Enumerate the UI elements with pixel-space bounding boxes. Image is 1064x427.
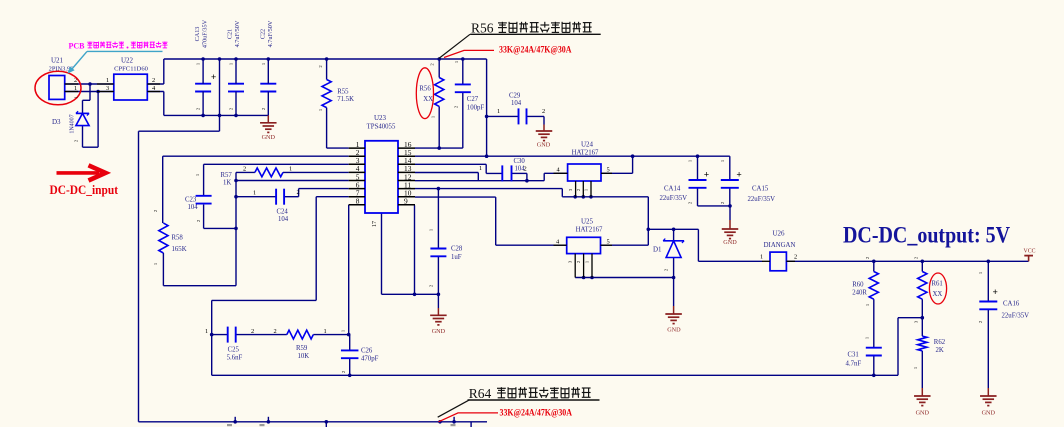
wire C30 right lead [512, 173, 527, 180]
svg-text:VCC: VCC [1024, 249, 1036, 255]
wire U21 pin1 to U22 pin3 [65, 91, 114, 93]
svg-text:CA14: CA14 [664, 186, 681, 193]
diode D1 [653, 239, 684, 272]
wire U24 gate jog [544, 173, 567, 180]
svg-text:5: 5 [607, 239, 610, 246]
svg-text:2: 2 [251, 328, 254, 335]
svg-text:R62: R62 [934, 339, 946, 346]
wire row16 [415, 147, 463, 149]
svg-text:R61: R61 [932, 281, 943, 288]
wire output rail [786, 260, 1028, 262]
red callout line bottom [439, 413, 499, 422]
wire C31 bottom lead [873, 356, 875, 376]
bottom stub e [470, 422, 472, 427]
wire SW to D1 and out [648, 228, 698, 230]
wire C26 top lead [349, 335, 351, 351]
svg-text:1: 1 [760, 254, 763, 261]
svg-text:R56: R56 [419, 86, 431, 93]
svg-text:R57: R57 [221, 172, 233, 179]
svg-text:1: 1 [324, 328, 327, 335]
wire row3 to pin3 [204, 163, 349, 165]
svg-text:470pF: 470pF [361, 356, 379, 363]
svg-text:CA13: CA13 [194, 27, 201, 42]
svg-text:C27: C27 [467, 96, 479, 103]
bottom rail wire [139, 421, 488, 423]
svg-text:DIANGAN: DIANGAN [764, 242, 796, 249]
svg-text:+: + [736, 171, 741, 181]
svg-text:1: 1 [479, 165, 482, 172]
svg-text:22uF/35V: 22uF/35V [748, 196, 776, 203]
capacitor C24 104 [253, 189, 300, 223]
svg-text:470uF/35V: 470uF/35V [202, 19, 209, 48]
svg-text:U24: U24 [581, 141, 594, 149]
svg-text:U21: U21 [51, 57, 64, 65]
svg-text:HAT2167: HAT2167 [572, 150, 599, 157]
wire CA16 top lead [987, 261, 989, 301]
wire D3 cathode loop [83, 92, 99, 148]
wire row10 to U25 gate [415, 197, 567, 245]
left bus wire [138, 131, 140, 422]
svg-text:R55: R55 [337, 89, 349, 96]
wire out jog down [698, 229, 762, 261]
cap return rail [164, 114, 268, 116]
wire CA14 bottom [698, 188, 731, 206]
wire row11 to SW [415, 189, 562, 197]
ground under C22 [260, 115, 277, 141]
svg-text:1N4007: 1N4007 [70, 114, 76, 133]
red arrow DC-DC input [57, 165, 106, 180]
resistor R61 XX [914, 256, 943, 323]
mosfet U24 HAT2167 [554, 141, 613, 197]
svg-text:R58: R58 [172, 235, 184, 242]
resistor R58 165K [153, 209, 187, 265]
capacitor C27 100pF [454, 60, 485, 111]
wire D3 anode jog [83, 84, 91, 113]
svg-text:2: 2 [297, 189, 300, 196]
VIN top rail [164, 58, 487, 60]
svg-text:U22: U22 [121, 57, 134, 65]
svg-text:R56: R56 [471, 21, 494, 36]
junction on pin1 wire [96, 90, 100, 94]
wire feedback tap [898, 318, 922, 376]
svg-text:C31: C31 [848, 352, 859, 359]
junction on pin2 wire [88, 82, 92, 86]
bottom stub c [325, 422, 327, 427]
svg-text:1: 1 [106, 77, 109, 84]
wire CA16 bottom lead [987, 309, 989, 396]
wire CA14 top lead [697, 156, 699, 180]
wire U24 drain to rail [601, 156, 633, 173]
bottom stub d [453, 417, 455, 422]
svg-text:1: 1 [253, 190, 256, 197]
wire C25 to R59 [236, 334, 287, 336]
svg-text:GND: GND [916, 410, 930, 417]
svg-text:2K: 2K [936, 347, 944, 354]
note R56 position [470, 21, 601, 36]
capacitor C21 4.7uF/50V [227, 20, 245, 115]
inductor U26 DIANGAN [760, 230, 797, 271]
wire D1 gnd stem [673, 278, 675, 315]
wire pad gnd row [382, 293, 439, 295]
red ellipse around R61 [929, 273, 946, 304]
svg-text:U25: U25 [581, 218, 594, 226]
red value note bottom [500, 409, 573, 419]
svg-text:2: 2 [243, 166, 246, 173]
wire U25 source bus [575, 277, 673, 279]
op-amp U23 TPS40055 controller [349, 114, 415, 227]
svg-text:CA15: CA15 [752, 186, 769, 193]
wire pin8 drop [348, 205, 350, 335]
cyan callout arrow [67, 51, 162, 73]
wire C28 bottom lead [437, 256, 439, 315]
svg-text:104: 104 [511, 100, 522, 107]
wire C23 top lead [203, 164, 205, 196]
connector U21 2PIN3.96 [49, 57, 78, 100]
black callout line bottom [438, 400, 470, 417]
svg-text:22uF/35V: 22uF/35V [1002, 313, 1030, 320]
svg-text:1K: 1K [223, 180, 231, 187]
svg-text:C28: C28 [451, 246, 463, 253]
resistor R56 XX [419, 63, 443, 119]
svg-text:165K: 165K [172, 246, 187, 253]
wire row5 to pin5 [236, 180, 349, 182]
svg-text:1: 1 [74, 85, 77, 92]
wire CA15 bottom [729, 188, 731, 206]
ground under C29 [536, 131, 553, 149]
svg-text:GND: GND [667, 327, 681, 334]
wire R56 branch [438, 59, 440, 78]
wire row4 R57 right to pin4 [283, 171, 349, 173]
svg-text:+: + [704, 171, 709, 181]
svg-text:XX: XX [423, 96, 433, 103]
wire C28 top lead [437, 189, 439, 249]
module U22 CPFC11D60 [97, 57, 160, 101]
wire C23 bottom to node [204, 205, 236, 229]
svg-text:4.7nF: 4.7nF [846, 361, 862, 368]
svg-text:R60: R60 [852, 282, 864, 289]
ground under CA16 [980, 396, 997, 417]
wire R56 bottom lead [438, 106, 440, 148]
capacitor C30 104 [479, 158, 527, 181]
wire C27 bottom lead [462, 92, 464, 148]
wire D1 top lead [673, 229, 675, 240]
magenta note PCB [69, 42, 168, 51]
red ellipse around U21 [35, 71, 81, 105]
black callout line top [439, 34, 470, 58]
svg-text:C30: C30 [514, 158, 526, 165]
svg-text:9: 9 [404, 197, 408, 206]
svg-text:GND: GND [432, 328, 446, 335]
svg-text:2: 2 [524, 166, 527, 173]
wire row1 R55 to pin1 [327, 147, 349, 149]
resistor R55 71.5K [318, 59, 354, 148]
wire C29 left lead [487, 115, 519, 117]
wire R62 bottom lead [921, 351, 923, 396]
resistor R57 1K [221, 166, 293, 187]
svg-text:PCB: PCB [69, 42, 86, 51]
wire U25 drain [601, 244, 649, 246]
title DC-DC_output 5V [843, 223, 1010, 249]
svg-text:104: 104 [188, 204, 199, 211]
wire VCC stem [1028, 256, 1030, 262]
red callout line top [444, 50, 494, 57]
svg-text:TPS40055: TPS40055 [367, 124, 396, 131]
svg-text:17: 17 [371, 221, 378, 227]
ground under D1 [665, 314, 682, 334]
svg-text:D3: D3 [52, 118, 61, 126]
capacitor C28 1uF [429, 228, 463, 287]
wire R59 to pin8 node [313, 334, 348, 336]
resistor R59 10K [274, 328, 327, 360]
svg-text:U23: U23 [374, 114, 387, 122]
svg-text:1: 1 [289, 166, 292, 173]
wire CA1415 gnd stem [729, 206, 731, 229]
svg-text:GND: GND [537, 142, 551, 149]
svg-text:+: + [992, 288, 997, 298]
wire node vertical x236 [235, 172, 237, 285]
svg-text:33K@24A/47K@30A: 33K@24A/47K@30A [500, 409, 573, 419]
ground under R62 [914, 396, 931, 417]
svg-text:4.7uF/50V: 4.7uF/50V [234, 20, 241, 47]
wire row9 drop [414, 205, 417, 294]
svg-text:4.7uF/50V: 4.7uF/50V [267, 20, 274, 47]
wire C27 top lead [462, 59, 464, 84]
svg-text:22uF/35V: 22uF/35V [660, 195, 688, 202]
capacitor C26 470pF [341, 329, 379, 373]
wire row7 feedback path [212, 197, 317, 376]
svg-text:D1: D1 [653, 246, 662, 254]
wire C24 left lead [236, 196, 276, 198]
svg-text:R59: R59 [296, 345, 308, 352]
svg-text:C25: C25 [228, 347, 240, 354]
svg-text:1uF: 1uF [451, 254, 462, 261]
wire pin17 drop [381, 213, 383, 294]
wire row13 jog [415, 173, 478, 181]
svg-text:GND: GND [982, 410, 996, 417]
capacitor C22 4.7uF/50V [260, 20, 277, 115]
wire row6 to pin6 [299, 188, 349, 190]
svg-text:C26: C26 [361, 348, 373, 355]
capacitor C23 104 [185, 173, 212, 222]
wire C25 row [212, 334, 228, 336]
wire CA15 top lead [729, 156, 731, 180]
cut-off pin marks at bottom edge [227, 424, 456, 426]
svg-text:GND: GND [262, 134, 276, 141]
red value note top [499, 45, 572, 55]
bottom stub b [267, 417, 269, 422]
ground under U23 pad [430, 315, 447, 335]
bottom stub a [234, 417, 236, 422]
svg-text:C21: C21 [227, 29, 234, 39]
note R64 position [468, 386, 600, 401]
svg-text:CPFC11D60: CPFC11D60 [114, 66, 149, 73]
svg-text:HAT2167: HAT2167 [576, 227, 603, 234]
svg-text:R64: R64 [469, 386, 492, 401]
label DC-DC_input [50, 183, 119, 197]
wire R58 bottom loop [163, 253, 236, 286]
svg-text:CA16: CA16 [1003, 301, 1020, 308]
wire U24 source bus [562, 196, 648, 198]
svg-text:33K@24A/47K@30A: 33K@24A/47K@30A [499, 45, 572, 55]
svg-text:104: 104 [278, 216, 289, 223]
wire row15 long rail [415, 155, 730, 157]
wire row14 to C30 [415, 164, 502, 173]
capacitor CA13 470uF/35V [194, 19, 216, 115]
svg-text:+: + [211, 73, 216, 83]
wire row7 to pin7 [316, 196, 349, 198]
mosfet U25 HAT2167 [554, 218, 613, 278]
capacitor C29 104 [497, 93, 545, 125]
svg-text:240R: 240R [852, 290, 867, 297]
svg-text:100pF: 100pF [467, 105, 485, 112]
svg-text:71.5K: 71.5K [337, 96, 354, 103]
svg-text:C22: C22 [260, 29, 267, 39]
capacitor CA15 22uF/35V [720, 159, 775, 204]
svg-text:DC-DC_output: 5V: DC-DC_output: 5V [843, 223, 1010, 249]
capacitor C31 4.7nF [846, 336, 882, 367]
wire row12 [415, 180, 544, 182]
wire feed down-left [139, 59, 220, 131]
wire R62 top lead [921, 318, 923, 336]
svg-text:U26: U26 [772, 230, 785, 238]
svg-text:C24: C24 [277, 209, 289, 216]
svg-text:8: 8 [356, 197, 360, 206]
capacitor C25 5.6nF [205, 327, 254, 362]
wire C29 branch vertical [486, 59, 488, 156]
wire C24 right jog up [284, 189, 299, 197]
svg-text:3: 3 [106, 85, 109, 92]
resistor R60 240R [852, 256, 878, 306]
red ellipse around R56 [416, 68, 433, 119]
svg-text:DC-DC_input: DC-DC_input [50, 183, 119, 197]
wire SW down [647, 197, 649, 245]
diode D3 1N4007 [52, 96, 89, 143]
wire U21 pin2 to U22 pin1 [65, 83, 114, 85]
svg-text:5: 5 [607, 167, 610, 174]
svg-text:2: 2 [274, 328, 277, 335]
capacitor CA14 22uF/35V [660, 159, 710, 204]
wire C29 right to gnd [527, 116, 545, 131]
svg-text:C29: C29 [509, 93, 521, 100]
wire U22 pin2 up to VIN rail [147, 59, 164, 84]
svg-text:1: 1 [205, 328, 208, 335]
wire feedback long [212, 374, 898, 376]
svg-text:XX: XX [933, 291, 943, 298]
svg-text:2: 2 [794, 254, 797, 261]
svg-text:1: 1 [497, 108, 500, 115]
wire R60 top lead [873, 261, 875, 271]
wire U22 pin4 down to cap return rail [147, 92, 164, 116]
ground under CA14 CA15 [722, 229, 739, 246]
svg-text:2: 2 [542, 108, 545, 115]
svg-text:2: 2 [152, 77, 155, 84]
svg-text:10K: 10K [298, 353, 310, 360]
capacitor CA16 22uF/35V [978, 271, 1029, 323]
svg-text:C23: C23 [185, 197, 197, 204]
wire R60 bottom lead [873, 299, 875, 348]
svg-text:GND: GND [723, 239, 737, 246]
resistor R62 2K [913, 336, 946, 369]
wire D1 bottom lead [673, 258, 675, 278]
wire R57 left lead [236, 171, 255, 173]
wire C26 bottom lead [349, 358, 351, 375]
power VCC [1024, 249, 1036, 256]
wire R61 bottom lead [921, 299, 923, 318]
wire row2 drop to R58 [162, 156, 164, 223]
wire R61 top lead [921, 261, 923, 271]
svg-text:5.6nF: 5.6nF [227, 355, 243, 362]
wire row2 to pin2 [163, 155, 349, 157]
